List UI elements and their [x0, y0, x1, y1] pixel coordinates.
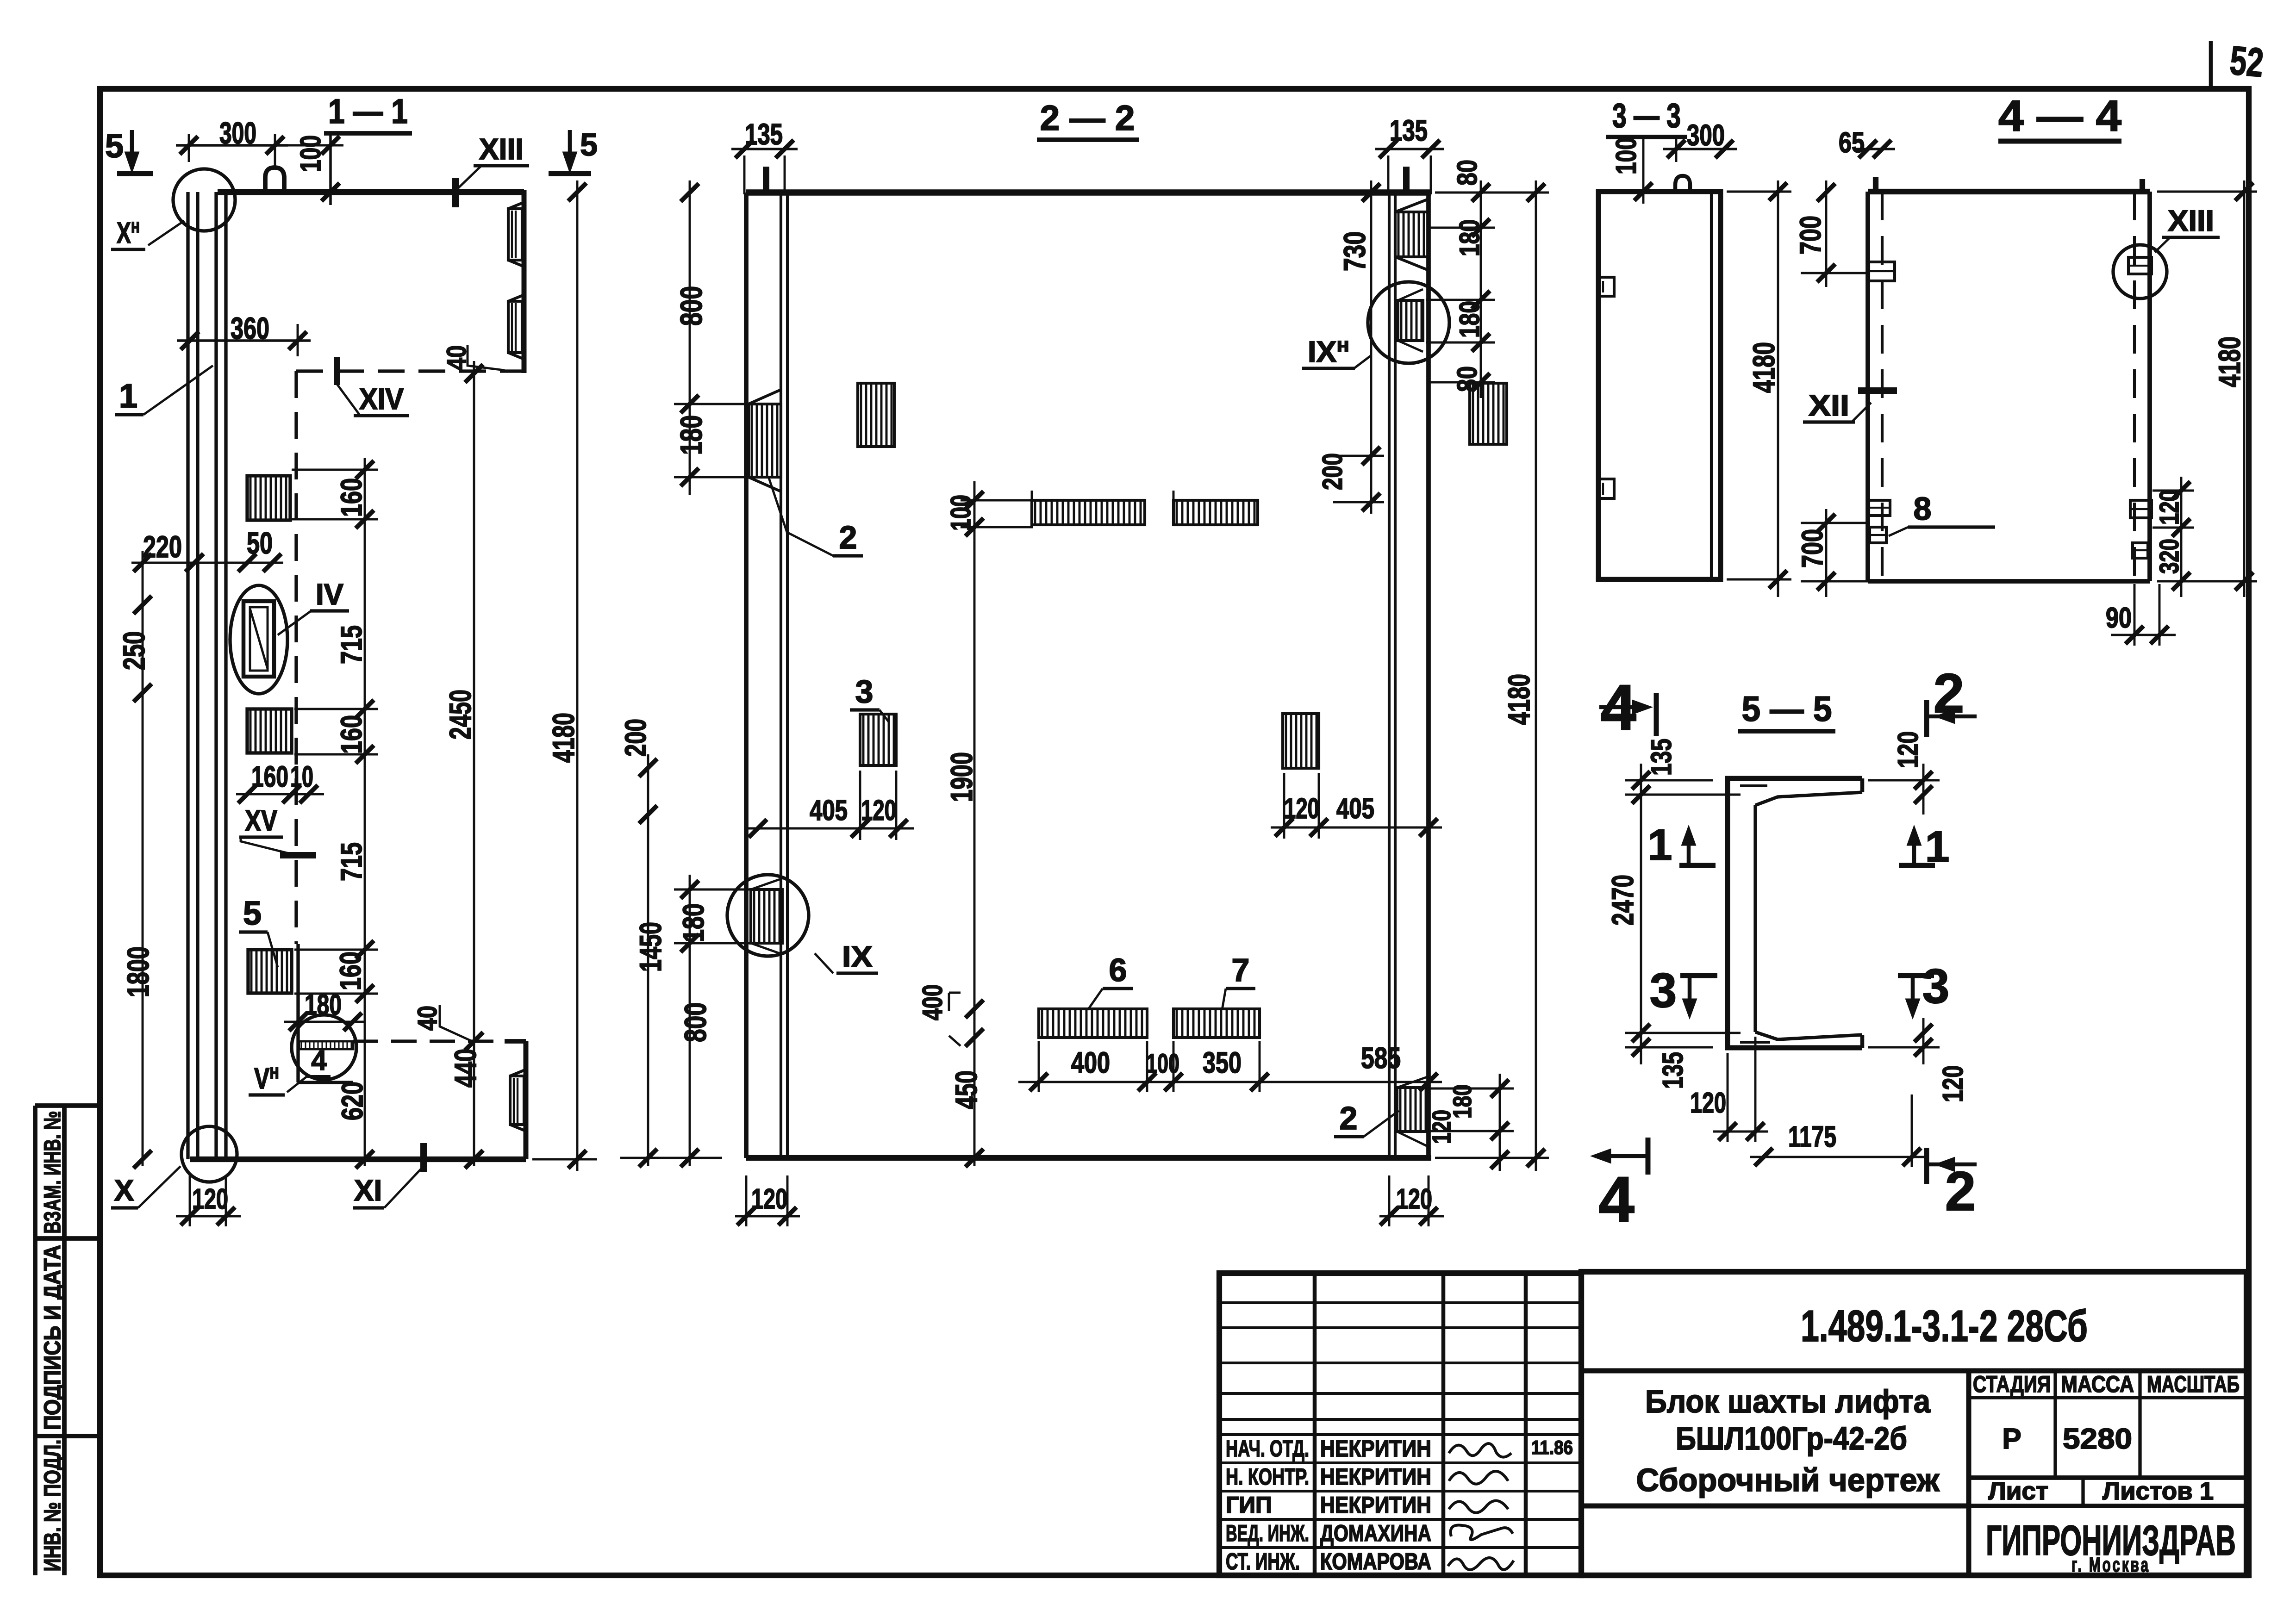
- svg-text:120: 120: [751, 1183, 787, 1215]
- svg-text:440: 440: [448, 1049, 482, 1088]
- svg-text:220: 220: [143, 529, 182, 564]
- title block doc number cell line: [1581, 1368, 2246, 1374]
- detail circle Vn: [292, 1015, 356, 1080]
- svg-text:11.86: 11.86: [1531, 1436, 1573, 1458]
- view 1-1 dashed inner edge bottom horizontal: [353, 1039, 505, 1043]
- svg-text:4: 4: [1598, 1163, 1635, 1236]
- hatched anchor plate rect2 view 1-1: [250, 710, 286, 752]
- dim line left wall inner 800 180: [689, 180, 691, 495]
- svg-text:ВЕД. ИНЖ.: ВЕД. ИНЖ.: [1226, 1520, 1309, 1546]
- svg-text:200: 200: [619, 719, 652, 757]
- svg-text:160: 160: [335, 715, 368, 754]
- detail IV oval: [230, 585, 287, 694]
- hatched strip top second: [1177, 501, 1254, 524]
- view 4-4 clip right lower2: [2133, 543, 2148, 558]
- svg-text:100: 100: [1610, 137, 1642, 174]
- svg-text:XII: XII: [1809, 389, 1849, 422]
- svg-text:5280: 5280: [2063, 1423, 2132, 1455]
- dim 120 320 right 4-4: [2180, 477, 2183, 597]
- channel web inner edge: [1753, 805, 1757, 1032]
- svg-text:5: 5: [105, 128, 124, 165]
- svg-text:ПОДПИСЬ И ДАТА: ПОДПИСЬ И ДАТА: [39, 1245, 65, 1430]
- hatched strip top first: [1035, 501, 1141, 524]
- hatch rect interior upper left: [861, 384, 892, 446]
- view 2-2 left wall top pin: [763, 167, 769, 193]
- svg-text:2: 2: [839, 519, 857, 555]
- svg-text:3: 3: [1922, 959, 1949, 1014]
- svg-text:МАССА: МАССА: [2061, 1371, 2134, 1397]
- svg-text:IV: IV: [316, 578, 343, 611]
- view 4-4 clip left upper: [1869, 262, 1895, 281]
- hatch rect interior lower left (3): [863, 715, 894, 765]
- hatched anchor plate rect1 view 1-1: [250, 477, 286, 519]
- svg-text:180: 180: [1454, 301, 1485, 338]
- svg-text:6: 6: [1109, 952, 1127, 988]
- svg-text:120: 120: [1427, 1110, 1456, 1144]
- svg-text:160: 160: [335, 478, 368, 517]
- view 2-2 left wall outer line: [744, 193, 749, 1158]
- svg-text:ДОМАХИНА: ДОМАХИНА: [1320, 1520, 1431, 1546]
- svg-text:40: 40: [412, 1006, 443, 1031]
- view 1-1 notch plate right upper: [508, 209, 522, 260]
- svg-text:90: 90: [2106, 602, 2132, 634]
- view 4-4 left wall solid: [1865, 192, 1870, 581]
- dim line right column view 1-1: [364, 458, 366, 1166]
- channel bottom flange top edge: [1755, 1032, 1862, 1039]
- svg-text:2450: 2450: [443, 690, 477, 740]
- view 1-1 top edge: [218, 189, 524, 195]
- hatch rect interior upper right: [1473, 384, 1504, 443]
- view 4-4 right wall solid: [2147, 192, 2152, 581]
- svg-text:120: 120: [1690, 1087, 1726, 1119]
- svg-text:100: 100: [945, 495, 976, 531]
- svg-text:XI: XI: [354, 1174, 382, 1207]
- svg-text:5: 5: [580, 127, 598, 162]
- detail circle IX left wall: [727, 875, 809, 956]
- svg-text:250: 250: [117, 631, 151, 670]
- svg-text:НЕКРИТИН: НЕКРИТИН: [1320, 1464, 1431, 1490]
- svg-text:4180: 4180: [546, 713, 580, 763]
- signature squiggle 2: [1449, 1471, 1508, 1484]
- svg-text:5: 5: [243, 895, 262, 932]
- svg-text:СТАДИЯ: СТАДИЯ: [1973, 1371, 2051, 1397]
- hatch block right wall upper: [1398, 213, 1424, 256]
- detail circle XIII 4-4: [2113, 245, 2167, 298]
- dim line 4180 4-4: [2243, 180, 2246, 597]
- title block list row: [1969, 1475, 2246, 1480]
- view 2-2 right wall inner double line: [1388, 193, 1391, 1158]
- page number 52: [2209, 41, 2213, 89]
- svg-text:1 — 1: 1 — 1: [328, 92, 408, 131]
- svg-text:8: 8: [1914, 491, 1932, 527]
- title block stadia massa masshtab header: [1969, 1396, 2246, 1399]
- svg-text:3: 3: [855, 673, 873, 709]
- svg-text:ИНВ. № ПОДЛ.: ИНВ. № ПОДЛ.: [39, 1440, 65, 1572]
- view 2-2 bottom edge: [746, 1155, 1431, 1161]
- dim 180 120 right wall bottom: [1499, 1074, 1501, 1171]
- hatch block in IXn circle: [1401, 301, 1422, 340]
- view 1-1 notch plate right lower: [508, 301, 522, 353]
- svg-text:180: 180: [674, 415, 708, 455]
- svg-text:200: 200: [1317, 453, 1348, 490]
- dim line outer 200 1450: [647, 754, 649, 1166]
- channel weld mark top: [1740, 784, 1767, 787]
- view 1-1 inner edge solid lower: [296, 944, 299, 1082]
- svg-text:КОМАРОВА: КОМАРОВА: [1320, 1548, 1431, 1574]
- svg-text:1175: 1175: [1788, 1120, 1836, 1153]
- margin column boxes: [33, 1106, 37, 1575]
- view 3-3 box: [1598, 192, 1721, 579]
- svg-text:320: 320: [2154, 539, 2184, 574]
- dim line 730 200: [1370, 180, 1373, 514]
- svg-text:52: 52: [2228, 37, 2265, 86]
- svg-text:НЕКРИТИН: НЕКРИТИН: [1320, 1436, 1431, 1461]
- svg-text:700: 700: [1796, 529, 1829, 568]
- extension line 300 dim 1-1 hook: [274, 134, 276, 167]
- svg-text:4 — 4: 4 — 4: [1998, 92, 2121, 141]
- svg-text:5 — 5: 5 — 5: [1742, 690, 1832, 729]
- view 4-4 left pin: [1873, 177, 1878, 192]
- svg-text:Н. КОНТР.: Н. КОНТР.: [1226, 1464, 1309, 1490]
- svg-text:XIII: XIII: [479, 132, 524, 166]
- hatched strip 7: [1177, 1010, 1254, 1037]
- svg-text:Сборочный чертеж: Сборочный чертеж: [1636, 1462, 1940, 1498]
- view 3-3 lifting hook: [1675, 176, 1690, 192]
- svg-text:620: 620: [336, 1082, 369, 1120]
- detail IV channel section: [243, 601, 274, 677]
- detail circle IXn: [1368, 282, 1449, 363]
- svg-text:1800: 1800: [121, 946, 155, 997]
- svg-text:350: 350: [1203, 1046, 1242, 1079]
- channel weld mark bottom: [1740, 1041, 1770, 1044]
- view 3-3 right inner line: [1710, 192, 1713, 579]
- view 1-1 left wall lines: [186, 192, 189, 1159]
- svg-text:1: 1: [1648, 821, 1672, 870]
- hatched anchor plate rect3 view 1-1: [251, 951, 287, 992]
- hatched strip 6: [1042, 1010, 1142, 1037]
- view 1-1 detail circle top: [173, 169, 235, 231]
- svg-text:450: 450: [949, 1070, 983, 1109]
- svg-text:X: X: [114, 1174, 134, 1207]
- svg-text:1900: 1900: [944, 752, 979, 802]
- svg-text:405: 405: [1336, 793, 1374, 825]
- view 2-2 top edge: [746, 189, 1431, 195]
- title block main box: [1581, 1272, 2246, 1575]
- svg-text:IX: IX: [842, 940, 873, 973]
- view 1-1 detail circle bottom: [181, 1126, 237, 1182]
- svg-text:Блок шахты лифта: Блок шахты лифта: [1645, 1383, 1931, 1419]
- svg-text:300: 300: [1687, 118, 1725, 152]
- dim line 2450 440 column: [473, 361, 475, 1166]
- view 4-4 bottom edge: [1868, 579, 2150, 584]
- svg-text:1450: 1450: [633, 922, 668, 972]
- svg-text:1: 1: [119, 378, 137, 415]
- svg-text:400: 400: [917, 984, 948, 1020]
- svg-text:800: 800: [678, 1002, 712, 1042]
- svg-text:160: 160: [251, 760, 288, 793]
- svg-text:120: 120: [1937, 1065, 1969, 1102]
- svg-text:ВЗАМ. ИНВ. №: ВЗАМ. ИНВ. №: [39, 1111, 65, 1234]
- view 4-4 right wall dashed: [2133, 192, 2136, 581]
- view 3-3 clip lower left: [1599, 479, 1614, 498]
- svg-text:3 — 3: 3 — 3: [1612, 96, 1681, 135]
- extension lines top strips to center dim line: [1031, 491, 1033, 502]
- dim line 4180 3-3: [1777, 180, 1779, 597]
- svg-text:80: 80: [1452, 160, 1483, 186]
- svg-text:715: 715: [335, 842, 368, 881]
- svg-text:80: 80: [1452, 366, 1483, 392]
- hatch rect interior lower right: [1286, 715, 1316, 767]
- svg-text:730: 730: [1337, 231, 1372, 271]
- svg-text:БШЛ100Гр-42-2б: БШЛ100Гр-42-2б: [1676, 1420, 1907, 1456]
- extension lines 135 dims to wall tops 2-2: [743, 155, 746, 194]
- svg-text:120: 120: [2154, 490, 2184, 525]
- view 4-4 clip right lower1: [2130, 500, 2152, 518]
- svg-text:160: 160: [334, 951, 367, 990]
- signature squiggle 1: [1449, 1443, 1511, 1457]
- view 4-4 clip left lower1: [1869, 500, 1890, 516]
- view 4-4 right pin: [2140, 179, 2145, 192]
- svg-text:4180: 4180: [1747, 342, 1781, 393]
- view 1-1 right edge top: [522, 190, 527, 373]
- svg-text:НЕКРИТИН: НЕКРИТИН: [1320, 1492, 1431, 1518]
- svg-text:Листов 1: Листов 1: [2103, 1477, 2214, 1505]
- channel top flange tip: [1860, 778, 1865, 792]
- svg-text:НАЧ. ОТД.: НАЧ. ОТД.: [1226, 1436, 1309, 1461]
- svg-text:180: 180: [677, 903, 710, 942]
- channel bottom flange tip: [1860, 1035, 1865, 1048]
- svg-text:700: 700: [1794, 216, 1827, 255]
- svg-text:г. Москва: г. Москва: [2071, 1554, 2150, 1576]
- svg-text:МАСШТАБ: МАСШТАБ: [2147, 1371, 2240, 1397]
- svg-text:405: 405: [810, 795, 848, 827]
- view 1-1 lower right corner: [505, 1039, 526, 1044]
- title block bottom divider left cell: [1581, 1504, 1969, 1509]
- dim line left 180 800 lower: [689, 875, 691, 1166]
- svg-text:180: 180: [1454, 219, 1485, 256]
- dim line below strips 6 7: [1018, 1081, 1442, 1083]
- view 4-4 top edge: [1868, 189, 2150, 194]
- view 4-4 clip right upper in circle: [2128, 257, 2152, 274]
- svg-text:4180: 4180: [2212, 336, 2246, 387]
- view 2-2 right wall top pin: [1403, 167, 1410, 193]
- svg-text:Лист: Лист: [1988, 1477, 2048, 1505]
- svg-text:4: 4: [311, 1045, 327, 1076]
- channel 5-5 outline: [1728, 778, 1862, 1048]
- svg-text:120: 120: [1396, 1183, 1432, 1215]
- svg-text:7: 7: [1232, 952, 1250, 988]
- view 4-4 clip left lower2: [1870, 527, 1886, 543]
- view 1-1 notch plate bottom right: [510, 1076, 524, 1125]
- svg-text:2: 2: [1340, 1100, 1358, 1136]
- svg-text:XV: XV: [245, 804, 277, 837]
- svg-text:135: 135: [1646, 739, 1678, 776]
- hatch block right wall bottom: [1400, 1088, 1426, 1131]
- hatched strip in Vn circle: [301, 1042, 351, 1048]
- signature squiggle 4: [1451, 1525, 1513, 1540]
- svg-text:ГИП: ГИП: [1226, 1492, 1272, 1518]
- channel top flange underside: [1755, 792, 1862, 805]
- dim line 135 2470 135 left of 5-5: [1640, 764, 1642, 1064]
- svg-text:2 — 2: 2 — 2: [1040, 99, 1135, 138]
- hatch block in IX circle: [754, 890, 780, 942]
- view 1-1 dashed inner edge vertical: [294, 371, 298, 944]
- view 1-1 dashed inner edge horizontal top: [296, 369, 524, 373]
- signature squiggle 3: [1449, 1501, 1508, 1513]
- extension lines strips 6 7 to dim line: [1038, 1041, 1040, 1092]
- svg-text:3: 3: [1650, 964, 1677, 1018]
- center dim line view 2-2: [973, 481, 976, 1166]
- svg-text:XIII: XIII: [2168, 204, 2214, 237]
- svg-text:СТ. ИНЖ.: СТ. ИНЖ.: [1226, 1548, 1300, 1574]
- view 2-2 right wall outer line: [1426, 193, 1431, 1158]
- svg-text:400: 400: [1071, 1046, 1110, 1079]
- signature squiggle 5: [1448, 1558, 1514, 1570]
- dim line right wall top 80 180 180 80: [1480, 180, 1482, 398]
- view 1-1 lifting hook top: [265, 168, 284, 192]
- svg-text:120: 120: [1892, 731, 1924, 768]
- dim line 4180 right of 2-2: [1535, 180, 1537, 1171]
- svg-text:2470: 2470: [1605, 875, 1640, 926]
- view 3-3 clip upper left: [1599, 277, 1614, 296]
- svg-text:Р: Р: [2002, 1423, 2021, 1455]
- svg-text:1.489.1-3.1-2 28Сб: 1.489.1-3.1-2 28Сб: [1801, 1301, 2088, 1351]
- view 4-4 left wall dashed: [1881, 192, 1884, 581]
- svg-text:135: 135: [1657, 1052, 1689, 1089]
- svg-text:585: 585: [1361, 1041, 1401, 1075]
- svg-text:XIV: XIV: [359, 382, 404, 416]
- title block vertical divider: [1966, 1371, 1972, 1575]
- view 2-2 left wall inner double line: [780, 193, 782, 1158]
- svg-text:50: 50: [247, 526, 273, 560]
- svg-text:715: 715: [335, 625, 368, 664]
- svg-text:4180: 4180: [1502, 674, 1536, 725]
- svg-text:800: 800: [674, 286, 708, 326]
- view 1-1 bottom edge: [190, 1157, 526, 1162]
- svg-text:10: 10: [290, 760, 313, 793]
- title block signature table: [1219, 1273, 1581, 1575]
- hatch block left wall upper: [752, 405, 777, 476]
- dim line 4180 view 1-1: [576, 180, 579, 1171]
- dim line left column view 1-1: [142, 551, 144, 1166]
